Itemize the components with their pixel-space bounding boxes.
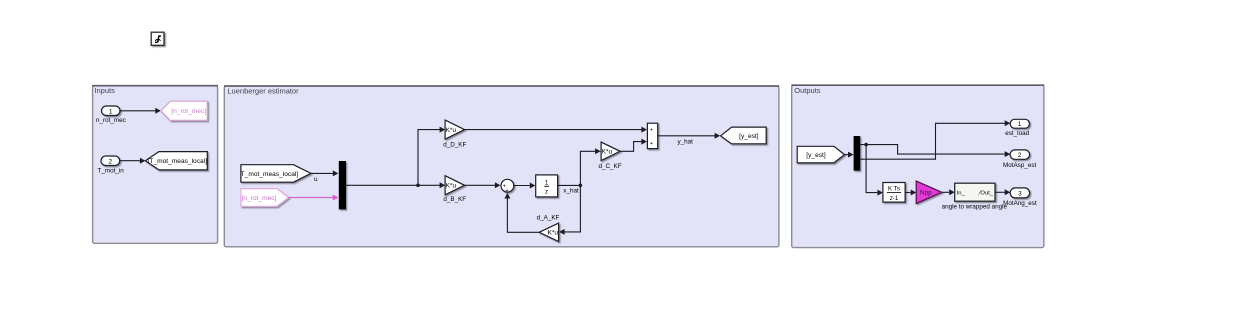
gain d_C_KF — [598, 142, 621, 170]
svg-text:+: + — [505, 188, 508, 194]
wire — [559, 185, 580, 235]
svg-text:K*u: K*u — [446, 183, 457, 190]
area Outputs — [791, 85, 1044, 247]
svg-text:z: z — [545, 189, 548, 196]
from tag [n_rot_mec] — [241, 189, 289, 207]
svg-text:In_: In_ — [957, 191, 966, 197]
gain d_A_KF — [537, 214, 560, 241]
outport 2 MotAsp_est — [1003, 150, 1036, 169]
svg-text:Inputs: Inputs — [94, 86, 115, 95]
svg-text:Luenberger estimator: Luenberger estimator — [227, 87, 299, 96]
svg-text:MotAng_est: MotAng_est — [1003, 200, 1037, 207]
wire — [346, 182, 445, 188]
demux Demux — [854, 136, 861, 171]
svg-text:K*u: K*u — [548, 230, 559, 237]
svg-text:d_B_KF: d_B_KF — [443, 196, 466, 203]
gain d_B_KF — [443, 176, 466, 204]
svg-text:1: 1 — [1018, 121, 1022, 128]
svg-text:[n_rot_mec]: [n_rot_mec] — [171, 108, 206, 115]
svg-text:2: 2 — [108, 158, 112, 165]
svg-text:[T_mot_meas_local]: [T_mot_meas_local] — [148, 158, 208, 165]
svg-text:[y_est]: [y_est] — [806, 152, 826, 159]
svg-text:[T_mot_meas_local]: [T_mot_meas_local] — [239, 171, 299, 178]
wire — [514, 183, 535, 189]
mux Mux — [339, 161, 346, 209]
svg-text:T_mot_in: T_mot_in — [97, 168, 124, 175]
wire — [504, 193, 539, 232]
wire — [418, 127, 445, 186]
from tag [y_est] — [797, 146, 844, 163]
wire — [860, 143, 1010, 157]
svg-text:x_hat: x_hat — [563, 187, 579, 194]
wire — [465, 127, 647, 133]
wire — [658, 133, 720, 139]
from tag [T_mot_meas_local] — [239, 165, 311, 183]
wire — [845, 152, 854, 158]
goto tag [n_rot_mec] — [161, 101, 207, 120]
wire — [311, 170, 339, 176]
unit delay 1/z — [536, 175, 558, 197]
goto tag [T_mot_meas_local] — [145, 152, 207, 170]
svg-text:+: + — [650, 141, 653, 147]
svg-text:1: 1 — [109, 108, 113, 115]
svg-text:[y_est]: [y_est] — [739, 133, 759, 140]
wire — [580, 148, 600, 185]
svg-text:Outputs: Outputs — [794, 86, 821, 95]
svg-text:d_D_KF: d_D_KF — [443, 141, 466, 148]
svg-text:3: 3 — [1018, 190, 1022, 197]
wire — [905, 190, 916, 196]
wire — [620, 139, 647, 152]
wire — [860, 120, 1010, 159]
svg-text:est_load: est_load — [1005, 130, 1029, 137]
trigger function-call icon block — [151, 32, 164, 45]
gain d_D_KF — [443, 120, 466, 148]
svg-text:d_C_KF: d_C_KF — [598, 163, 621, 170]
svg-text:K*u: K*u — [602, 149, 613, 156]
wire — [995, 189, 1010, 195]
svg-text:angle to wrapped angle: angle to wrapped angle — [942, 203, 1008, 210]
gain Npp — [916, 181, 942, 204]
sum block — [647, 123, 657, 148]
wire — [866, 145, 883, 196]
svg-text:z-1: z-1 — [890, 195, 899, 202]
wire — [465, 182, 501, 188]
wire (pink) — [289, 195, 339, 201]
wire — [120, 158, 146, 164]
svg-text:⁄Out_: ⁄Out_ — [977, 191, 993, 197]
wire — [120, 108, 161, 114]
goto tag [y_est] — [721, 127, 767, 144]
svg-text:[n_rot_mec]: [n_rot_mec] — [242, 195, 277, 202]
svg-text:MotAsp_est: MotAsp_est — [1003, 162, 1036, 169]
wire — [558, 184, 583, 188]
outport 3 MotAng_est — [1003, 188, 1037, 207]
sum (round) — [501, 179, 514, 194]
inport 2 T_mot_in — [97, 156, 124, 175]
svg-text:1: 1 — [545, 179, 549, 186]
svg-text:K Ts: K Ts — [888, 186, 900, 193]
svg-text:d_A_KF: d_A_KF — [537, 214, 560, 221]
svg-text:Npp: Npp — [920, 190, 932, 197]
svg-text:u: u — [314, 176, 318, 183]
subsystem angle to wrapped angle — [942, 183, 1008, 210]
outport 1 est_load — [1005, 119, 1029, 137]
svg-text:+: + — [650, 128, 653, 134]
svg-text:y_hat: y_hat — [677, 138, 693, 145]
area Inputs — [92, 86, 218, 244]
area Luenberger estimator — [224, 86, 779, 247]
svg-text:2: 2 — [1018, 152, 1022, 159]
svg-text:n_rot_mec: n_rot_mec — [96, 117, 126, 124]
inport 1 n_rot_mec — [96, 106, 126, 124]
discrete integrator K Ts/(z-1) — [883, 183, 905, 203]
wire — [942, 189, 955, 195]
svg-text:K*u: K*u — [446, 127, 457, 134]
